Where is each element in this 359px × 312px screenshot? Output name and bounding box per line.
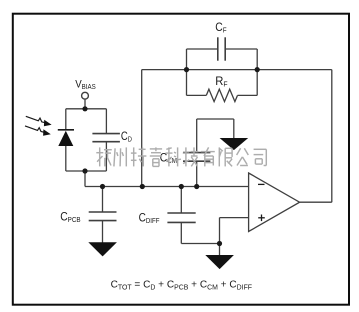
svg-text:CF: CF — [215, 22, 226, 35]
svg-text:RF: RF — [215, 76, 227, 89]
svg-text:CTOT = CD + CPCB + CCM + CDIFF: CTOT = CD + CPCB + CCM + CDIFF — [111, 280, 252, 292]
svg-text:VBIAS: VBIAS — [75, 79, 96, 91]
svg-text:CDIFF: CDIFF — [139, 212, 160, 225]
svg-text:CD: CD — [121, 130, 132, 143]
svg-text:CPCB: CPCB — [60, 211, 81, 224]
